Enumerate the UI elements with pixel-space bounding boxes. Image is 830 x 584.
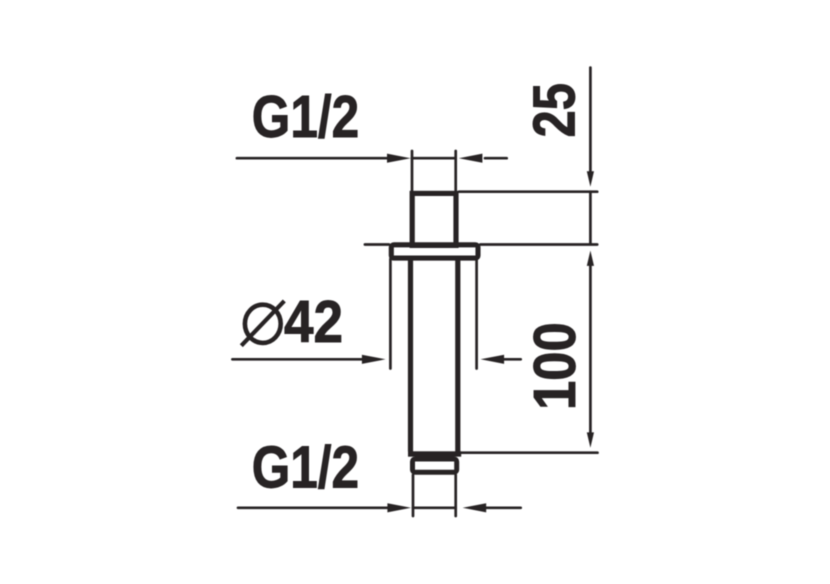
svg-text:42: 42 — [284, 288, 343, 354]
svg-text:25: 25 — [522, 83, 587, 137]
svg-text:G1/2: G1/2 — [252, 434, 359, 500]
svg-text:G1/2: G1/2 — [252, 84, 359, 150]
svg-text:100: 100 — [521, 322, 587, 410]
